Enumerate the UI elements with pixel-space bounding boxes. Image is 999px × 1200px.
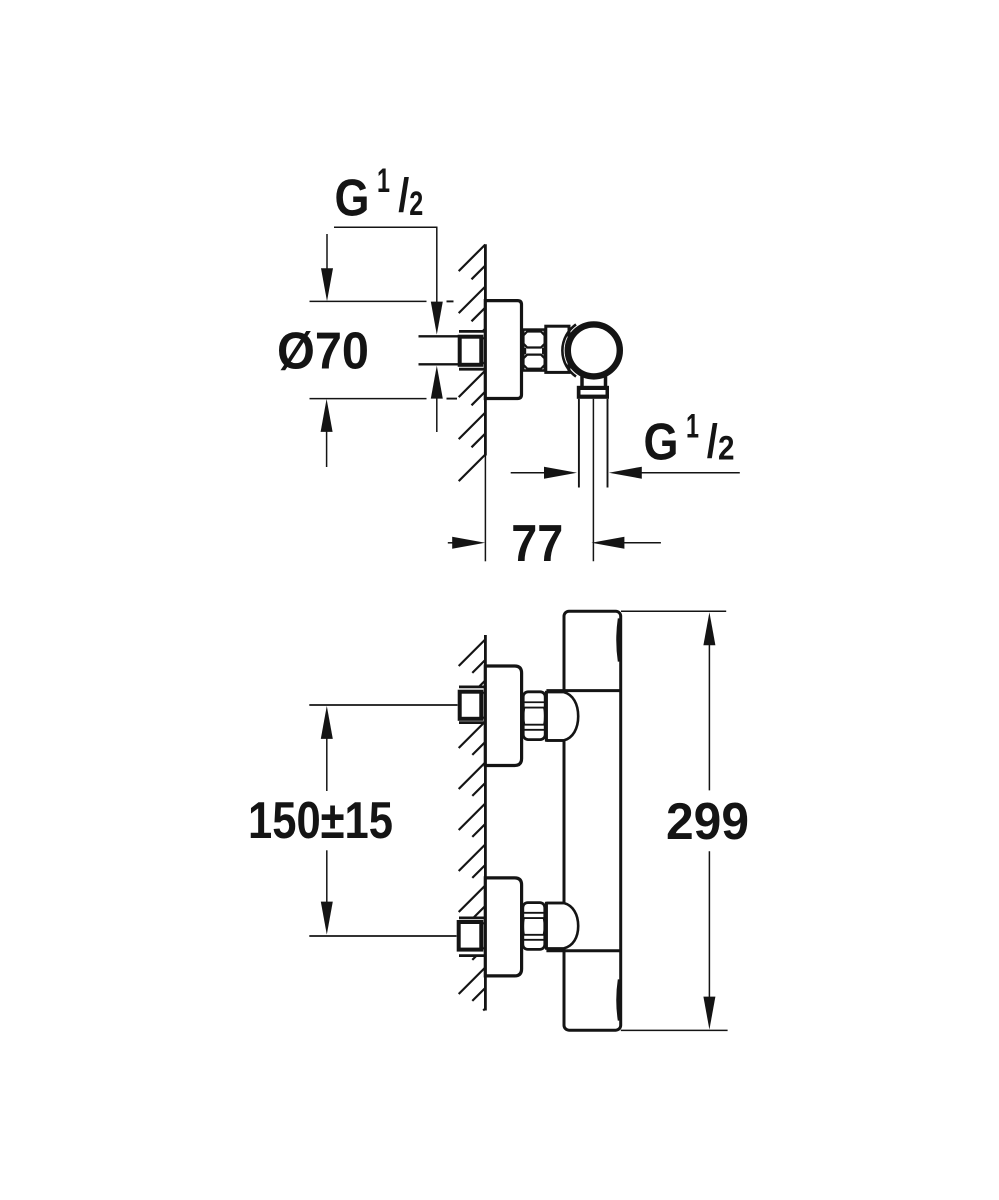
lower union nut (profile) — [523, 903, 545, 950]
lower boss bottom line — [546, 949, 619, 952]
G1/2 outlet dim (horizontal) — [511, 467, 740, 479]
lower boss top line — [546, 902, 564, 905]
wall hatch (side view) — [459, 245, 486, 482]
dia70 dim verticals — [321, 234, 333, 467]
svg-text:299: 299 — [666, 793, 749, 851]
G1/2 top leader bracket — [334, 226, 438, 228]
299 dimension line — [703, 612, 715, 1029]
outlet flange — [577, 386, 609, 399]
svg-text:150±15: 150±15 — [248, 792, 393, 850]
wall hatch (front/profile view) — [459, 640, 486, 1011]
supply pipe stub — [419, 336, 459, 364]
lower union cone — [546, 903, 578, 948]
wall face line (profile view) — [484, 635, 487, 1011]
lower union flange lines — [459, 918, 485, 956]
svg-text:G: G — [644, 414, 679, 472]
upper boss bottom line — [546, 739, 564, 742]
lower union square — [459, 922, 485, 950]
upper union square — [460, 691, 485, 719]
knob skirt arc — [562, 324, 576, 376]
mixer body (vertical bar) — [564, 611, 621, 1030]
union flange lines — [459, 331, 485, 369]
outlet pipe — [579, 399, 608, 488]
thermostat knob — [568, 324, 620, 376]
svg-text:77: 77 — [511, 515, 563, 573]
text G1/2 (top) — [335, 162, 424, 228]
svg-text:/: / — [398, 169, 409, 222]
upper union cone — [546, 692, 578, 740]
outlet centerline / extension — [592, 399, 594, 562]
escutcheon (side view) — [485, 301, 521, 399]
union clearance (white) — [458, 332, 486, 369]
svg-text:2: 2 — [718, 429, 735, 467]
dia70 extension lines — [310, 301, 458, 398]
wall face line (side view) — [484, 244, 487, 561]
299 extension lines — [621, 611, 728, 1030]
150 extension lines — [309, 705, 457, 936]
upper union clearance (white) — [457, 688, 486, 722]
upper boss top line — [546, 689, 619, 692]
body corner arc top — [618, 619, 620, 662]
text G1/2 (outlet) — [644, 408, 735, 472]
svg-text:/: / — [707, 415, 718, 468]
svg-text:1: 1 — [377, 162, 390, 200]
150 dimension line — [321, 706, 333, 935]
G1/2 thread dim verticals — [431, 227, 443, 432]
svg-text:1: 1 — [686, 408, 699, 446]
77 dim — [448, 537, 661, 549]
upper union flange lines — [459, 687, 485, 723]
valve body (side view) — [546, 326, 569, 372]
upper escutcheon — [485, 666, 521, 766]
outlet neck — [582, 376, 606, 387]
lower union clearance (white) — [456, 919, 486, 955]
lower escutcheon — [485, 878, 521, 976]
union nut (side view) — [523, 330, 545, 371]
svg-text:G: G — [335, 170, 370, 228]
svg-text:2: 2 — [409, 185, 423, 223]
eccentric union square — [460, 337, 485, 365]
upper union nut (profile) — [523, 692, 545, 740]
svg-text:Ø70: Ø70 — [277, 323, 369, 381]
body corner arc bottom — [618, 980, 620, 1021]
